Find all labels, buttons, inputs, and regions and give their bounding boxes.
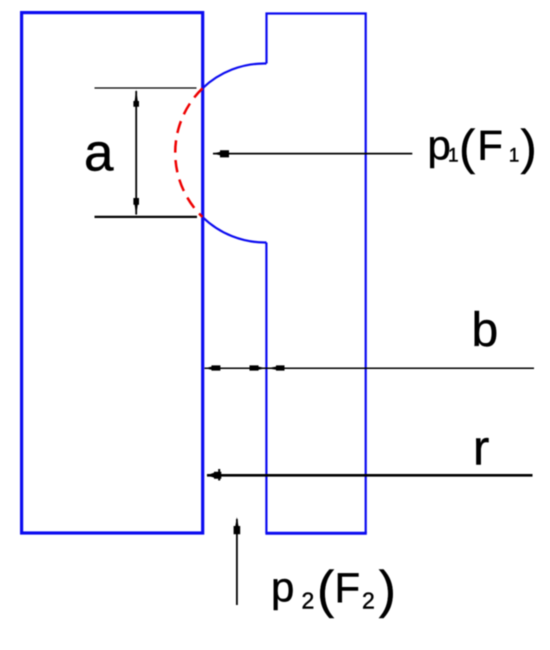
- dimension a vertical line: [135, 91, 137, 215]
- svg-text:2: 2: [362, 588, 375, 614]
- r arrowhead pointing left: [207, 472, 222, 479]
- pin body outline: [266, 14, 365, 534]
- svg-text:2: 2: [302, 588, 315, 614]
- dimension a down arrowhead: [133, 198, 139, 216]
- p1 arrowhead: [213, 150, 230, 157]
- label p1(F1): [428, 121, 537, 175]
- pin head arc lower blue segment: [203, 217, 267, 243]
- svg-text:(: (: [317, 560, 334, 618]
- b right arrowhead pointing left: [267, 365, 285, 370]
- contact surface red dashed arc: [175, 88, 202, 217]
- svg-text:a: a: [84, 124, 114, 183]
- svg-text:b: b: [472, 304, 499, 357]
- svg-text:r: r: [473, 422, 489, 476]
- svg-text:p: p: [271, 564, 294, 611]
- dimension a top tick line: [95, 87, 197, 89]
- pin bottom edge: [265, 532, 366, 535]
- dimension a up arrowhead: [133, 90, 139, 107]
- svg-text:): ): [521, 121, 537, 175]
- p1 leader line: [213, 153, 412, 155]
- svg-text:F: F: [477, 122, 503, 169]
- svg-text:): ): [379, 560, 396, 618]
- svg-text:(: (: [459, 121, 475, 175]
- b middle arrowhead pointing right: [250, 365, 267, 370]
- pin head arc upper blue segment: [203, 63, 267, 88]
- svg-text:1: 1: [509, 145, 520, 166]
- label p2(F2): [271, 560, 396, 618]
- p2 leader line vertical: [236, 519, 238, 605]
- p2 up arrowhead: [234, 517, 241, 534]
- r arrowhead tick: [218, 469, 220, 481]
- left plate (part with hole): [22, 13, 203, 533]
- b dimension line: [205, 367, 535, 369]
- svg-text:F: F: [335, 564, 361, 611]
- r leader line: [207, 474, 533, 477]
- dimension a bottom tick line: [95, 216, 198, 218]
- b left arrowhead pointing left: [205, 365, 221, 370]
- svg-text:1: 1: [448, 145, 459, 166]
